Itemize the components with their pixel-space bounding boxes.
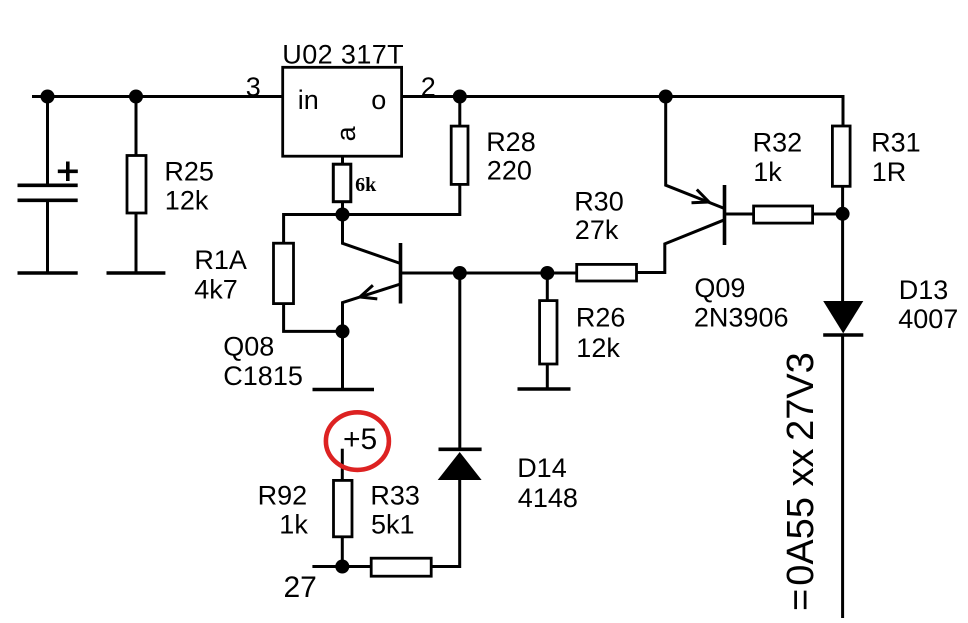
svg-text:in: in: [298, 85, 319, 115]
node dot 6k: [336, 208, 350, 222]
svg-text:1k: 1k: [753, 157, 782, 187]
wire Q08 emitter: [343, 284, 401, 331]
resistor 6k: [333, 164, 351, 202]
svg-text:C1815: C1815: [223, 361, 303, 391]
resistor R1A: [274, 243, 294, 303]
node dot R32-R31-D13: [836, 207, 850, 221]
wire cap top stub: [46, 97, 49, 186]
resistor R26: [540, 301, 557, 364]
wire R26 top stub: [546, 273, 549, 301]
node dot rail-R28: [453, 90, 467, 104]
svg-text:220: 220: [487, 156, 532, 186]
wire R28 top stub: [458, 97, 461, 127]
resistor R31: [832, 126, 850, 186]
wire D14 bottom to R33: [431, 480, 460, 567]
svg-text:1k: 1k: [279, 509, 308, 539]
svg-text:D14: D14: [517, 453, 567, 483]
svg-text:4k7: 4k7: [194, 275, 238, 305]
resistor R92: [334, 480, 353, 536]
svg-text:D13: D13: [899, 275, 949, 305]
wire base rail to R26 and R30: [460, 272, 577, 275]
svg-text:=0A55 xx 27V3: =0A55 xx 27V3: [780, 352, 822, 611]
svg-text:R92: R92: [258, 481, 308, 511]
wire D14 top stub: [458, 273, 461, 448]
svg-text:R1A: R1A: [194, 245, 247, 275]
transistor Q08 base bar: [399, 243, 403, 304]
wire D13 cathode to bottom edge: [841, 335, 844, 618]
wire node to R1A top: [284, 215, 343, 244]
transistor Q09 base bar: [723, 185, 727, 245]
svg-text:12k: 12k: [165, 186, 209, 216]
diode D13 triangle: [823, 301, 863, 333]
svg-text:1R: 1R: [872, 157, 907, 187]
svg-text:27k: 27k: [575, 215, 619, 245]
wire Q09 emitter: [666, 97, 725, 209]
svg-text:R30: R30: [574, 187, 624, 217]
D13 cathode bar: [823, 333, 863, 337]
wire R92 top stub to +5: [341, 449, 344, 481]
svg-text:Q09: Q09: [694, 273, 745, 303]
wire R31 bottom stub: [841, 186, 844, 214]
wire Q09 base lead: [725, 213, 754, 216]
svg-text:R26: R26: [576, 303, 626, 333]
D14 cathode bar: [439, 447, 482, 451]
svg-text:5k1: 5k1: [371, 509, 415, 539]
svg-text:2: 2: [421, 72, 436, 102]
wire R92 bottom stub: [341, 537, 344, 567]
ground R26: [518, 387, 571, 391]
wire emitter node to ground: [341, 331, 344, 389]
wire R25 top stub: [135, 97, 138, 156]
ground R25: [107, 271, 166, 275]
svg-text:4148: 4148: [518, 483, 578, 513]
node dot R26: [540, 266, 554, 280]
svg-text:R31: R31: [871, 128, 921, 158]
svg-text:R32: R32: [753, 128, 803, 158]
ground Q08 emitter: [313, 388, 375, 392]
wire R25 bottom stub: [135, 213, 138, 273]
wire R32 right stub: [813, 213, 843, 216]
svg-text:o: o: [371, 85, 386, 115]
node dot rail-R25: [129, 90, 143, 104]
wire R26 bottom stub: [546, 364, 549, 389]
svg-text:3: 3: [246, 72, 261, 102]
svg-text:2N3906: 2N3906: [694, 303, 789, 333]
svg-text:+5: +5: [343, 423, 377, 456]
wire node to R28 bottom: [343, 185, 460, 215]
wire main rail left: [32, 95, 283, 98]
wire Q08 base lead: [401, 272, 460, 275]
diode D14 triangle: [438, 452, 482, 480]
svg-text:R28: R28: [486, 127, 536, 157]
resistor R25: [127, 156, 146, 214]
IC box U02: [283, 67, 402, 156]
wire R30 right to Q09 collector: [637, 220, 724, 272]
svg-text:27: 27: [284, 571, 317, 604]
svg-text:R33: R33: [370, 481, 420, 511]
svg-text:a: a: [331, 125, 361, 141]
arrow Q08 emitter: [360, 285, 377, 299]
wire Q08 collector: [343, 215, 401, 264]
resistor R28: [451, 126, 468, 184]
svg-text:4007: 4007: [898, 304, 958, 334]
node dot rail-Q09: [659, 90, 673, 104]
resistor R33: [371, 558, 431, 576]
+5 supply circle: [326, 412, 389, 470]
capacitor C plates: [18, 184, 78, 188]
svg-text:Q08: Q08: [223, 332, 274, 362]
wire pin a stub: [341, 155, 344, 166]
resistor R32: [754, 206, 813, 223]
capacitor plus sign: [58, 162, 78, 182]
svg-text:12k: 12k: [576, 333, 620, 363]
svg-text:U02 317T: U02 317T: [282, 40, 404, 70]
svg-text:R25: R25: [164, 157, 214, 187]
node dot base-D14: [453, 266, 467, 280]
wire R33 left to node 27: [312, 565, 371, 568]
ground cap: [18, 271, 78, 275]
wire 6k bottom to node: [341, 201, 344, 215]
node dot rail-cap: [41, 90, 55, 104]
node dot 27: [335, 560, 349, 574]
wire cap bottom stub: [46, 200, 49, 273]
arrow Q09 emitter: [692, 190, 710, 203]
wire main rail right: [402, 97, 844, 127]
node dot emitter-R1A: [336, 324, 350, 338]
svg-text:6k: 6k: [355, 174, 377, 196]
wire D13 anode stub: [841, 214, 844, 301]
resistor R30: [577, 264, 637, 281]
wire R1A bottom to emitter node: [284, 303, 343, 332]
